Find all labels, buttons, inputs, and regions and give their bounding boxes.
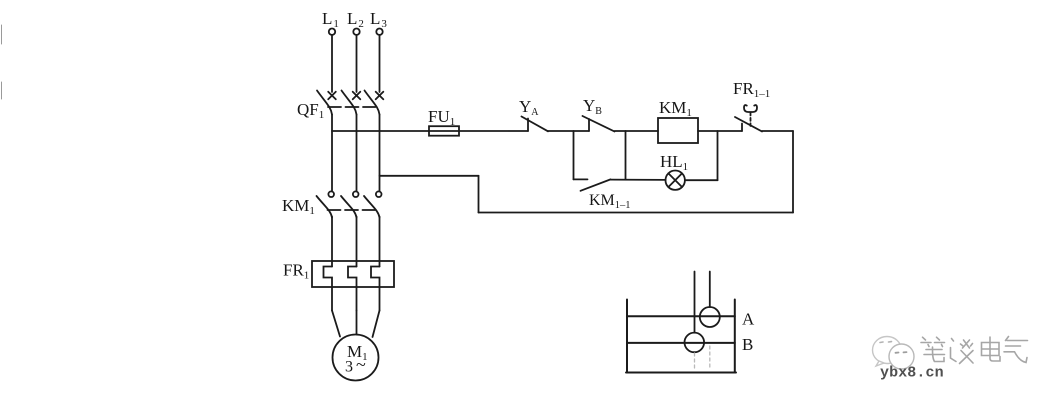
char 笔 bbox=[921, 337, 945, 361]
svg-text:A: A bbox=[742, 310, 755, 329]
contactor KM1 pole 3 blade bbox=[364, 196, 380, 218]
svg-text:3: 3 bbox=[345, 359, 353, 376]
char 气 bbox=[1004, 337, 1028, 363]
FR1-1 thermal symbol bbox=[744, 105, 757, 112]
contactor KM1 linkage dashed bbox=[328, 209, 376, 211]
left return vertical wire bbox=[478, 176, 480, 213]
wire FR1-1 to right corner bbox=[762, 130, 793, 132]
svg-text:KM1: KM1 bbox=[282, 196, 315, 217]
motor M1 circle bbox=[333, 335, 379, 381]
wire L3 to QF1 bbox=[379, 35, 381, 92]
contactor KM1 pole 2 fixed contact bbox=[353, 191, 359, 197]
svg-text:ybx8.cn: ybx8.cn bbox=[880, 365, 944, 382]
wire phase1 KM1 to FR1 bbox=[331, 217, 333, 267]
switch YB stub bbox=[588, 119, 590, 131]
wire YB to KM1 coil bbox=[615, 130, 659, 132]
wire phase2 QF1 to KM1 contact bbox=[356, 115, 358, 192]
phase3 tap wire bbox=[380, 175, 479, 177]
contactor KM1 pole 1 blade bbox=[317, 196, 333, 218]
switch YA blade bbox=[522, 117, 549, 132]
breaker QF1 pole 2 blade bbox=[342, 91, 357, 115]
coil KM1 bbox=[658, 118, 698, 143]
wire phase3 KM1 to FR1 bbox=[379, 217, 381, 267]
float sensor B bbox=[685, 333, 705, 353]
label M1 3~ bbox=[345, 342, 368, 376]
watermark text 笔谈电气 (drawn strokes) bbox=[921, 337, 1028, 364]
tank outline bbox=[626, 300, 736, 373]
lamp HL1 bbox=[666, 171, 685, 190]
terminal L1 bbox=[322, 9, 339, 35]
float sensor A bbox=[700, 307, 720, 327]
contactor KM1 pole 1 fixed contact bbox=[328, 191, 334, 197]
KM1-1 branch left vertical bbox=[573, 131, 575, 179]
thermal relay FR1 box bbox=[312, 261, 394, 287]
wire phase1 QF1 to KM1 contact bbox=[331, 115, 333, 192]
KM1-1 branch right vertical bbox=[625, 131, 627, 180]
terminal L3 bbox=[370, 9, 387, 35]
char 谈 bbox=[951, 339, 974, 364]
wire L2 to QF1 bbox=[356, 35, 358, 92]
terminal L2 bbox=[347, 9, 364, 35]
wire to motor left bbox=[332, 311, 340, 337]
switch YA stub bbox=[527, 119, 529, 132]
contact FR1-1 blade bbox=[735, 117, 762, 132]
breaker QF1 pole 3 contact cross bbox=[376, 92, 384, 100]
svg-text:B: B bbox=[742, 335, 753, 354]
KM1-1 branch wire to lamp bbox=[611, 179, 666, 181]
wire lamp to right vertical bbox=[685, 179, 718, 181]
scan artifact left edge bbox=[1, 25, 3, 99]
contactor KM1 pole 2 blade bbox=[341, 196, 357, 218]
svg-text:~: ~ bbox=[356, 355, 366, 375]
tank level line A bbox=[627, 315, 735, 317]
svg-text:FR1–1: FR1–1 bbox=[733, 79, 770, 100]
probe B faint continuation bbox=[694, 353, 696, 370]
char 电 bbox=[982, 337, 1001, 361]
breaker QF1 linkage dashed bbox=[328, 106, 376, 108]
svg-text:YB: YB bbox=[583, 96, 602, 117]
wire coil to FR1-1 bbox=[698, 130, 742, 132]
wire to motor right bbox=[373, 311, 380, 338]
svg-text:FU1: FU1 bbox=[428, 107, 455, 128]
svg-text:YA: YA bbox=[519, 97, 539, 118]
probe rod A bbox=[709, 272, 711, 308]
svg-text:HL1: HL1 bbox=[660, 152, 688, 173]
breaker QF1 pole 3 blade bbox=[365, 91, 380, 115]
watermark logo bubbles bbox=[873, 337, 915, 370]
svg-text:FR1: FR1 bbox=[283, 261, 309, 282]
bottom rail wire bbox=[479, 212, 794, 214]
tank level line B bbox=[627, 342, 735, 344]
wire phase3 QF1 to KM1 contact bbox=[379, 115, 381, 192]
control line phase1 tap to fuse and YA bbox=[332, 130, 528, 132]
contact FR1-1 stub bbox=[741, 124, 743, 132]
probe A faint continuation bbox=[709, 346, 711, 370]
probe rod B bbox=[694, 272, 696, 333]
FR1 heater element phase1 bbox=[324, 267, 333, 311]
svg-text:L1: L1 bbox=[322, 9, 339, 30]
KM1-1 branch left stub bbox=[574, 178, 588, 180]
breaker QF1 pole 2 contact cross bbox=[353, 92, 361, 100]
wire L1 to QF1 bbox=[331, 35, 333, 92]
right vertical wire bbox=[792, 131, 794, 213]
switch YB blade bbox=[583, 116, 615, 132]
FR1 heater element phase3 bbox=[371, 267, 380, 311]
svg-text:L2: L2 bbox=[347, 9, 364, 30]
contact KM1-1 blade bbox=[581, 179, 611, 190]
contactor KM1 pole 3 fixed contact bbox=[376, 191, 382, 197]
svg-text:L3: L3 bbox=[370, 9, 387, 30]
wire to motor middle bbox=[356, 311, 358, 335]
wire YA to YB bbox=[548, 130, 589, 132]
HL1 right vertical to main line bbox=[717, 131, 719, 180]
breaker QF1 pole 1 contact cross bbox=[328, 92, 336, 100]
fuse FU1 bbox=[429, 126, 459, 136]
svg-text:KM1: KM1 bbox=[659, 98, 692, 119]
svg-text:QF1: QF1 bbox=[297, 100, 324, 121]
wire phase2 KM1 to FR1 bbox=[356, 217, 358, 267]
FR1-1 actuator dashed link bbox=[750, 113, 752, 127]
svg-text:KM1–1: KM1–1 bbox=[589, 192, 631, 211]
FR1 heater element phase2 bbox=[348, 267, 357, 311]
breaker QF1 pole 1 blade bbox=[317, 91, 332, 115]
